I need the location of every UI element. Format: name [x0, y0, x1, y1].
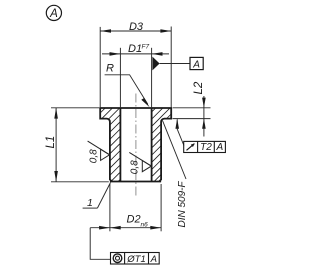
centerline	[135, 94, 137, 197]
svg-text:DIN 509-F: DIN 509-F	[177, 180, 188, 227]
svg-text:A: A	[215, 142, 223, 153]
roughness 0,8 in bore	[129, 152, 151, 174]
svg-text:1: 1	[87, 197, 93, 209]
hatching left section	[13, 90, 217, 200]
svg-text:n6: n6	[141, 221, 149, 228]
datum A box	[190, 57, 203, 70]
roughness 0,8 on body OD	[88, 141, 110, 163]
svg-text:D3: D3	[129, 21, 144, 33]
bore walls	[120, 108, 151, 182]
dimension D3	[100, 21, 171, 108]
svg-text:F7: F7	[142, 44, 150, 51]
svg-text:T2: T2	[200, 142, 212, 153]
svg-text:0,8: 0,8	[129, 160, 140, 174]
top face line	[99, 107, 172, 109]
part outline left section	[100, 108, 112, 182]
svg-text:L2: L2	[193, 81, 205, 94]
undercut note DIN 509-F	[163, 121, 189, 228]
svg-text:0,8: 0,8	[89, 149, 100, 163]
svg-text:L1: L1	[45, 136, 57, 149]
svg-text:D2: D2	[127, 214, 141, 226]
view label A	[46, 5, 61, 20]
svg-text:A: A	[49, 8, 58, 20]
svg-text:A: A	[192, 59, 200, 70]
dimension L1	[45, 108, 109, 182]
hatching right section	[64, 90, 260, 200]
svg-text:D1: D1	[128, 43, 142, 55]
concentricity frame OT1 A	[111, 253, 160, 265]
concentricity frame leader	[90, 228, 110, 260]
datum A triangle	[152, 57, 190, 71]
svg-text:R: R	[106, 63, 114, 75]
note 1 leader	[83, 183, 111, 210]
runout frame leader	[175, 119, 184, 146]
bottom face line	[110, 181, 161, 183]
svg-text:ØT1: ØT1	[126, 254, 145, 265]
dimension D1 F7	[102, 43, 169, 107]
radius label R	[105, 63, 150, 108]
svg-text:A: A	[150, 254, 157, 265]
part outline right section	[159, 108, 171, 182]
dimension L2	[173, 81, 211, 136]
runout frame T2 A	[184, 141, 226, 153]
dimension D2 n6	[90, 184, 161, 231]
